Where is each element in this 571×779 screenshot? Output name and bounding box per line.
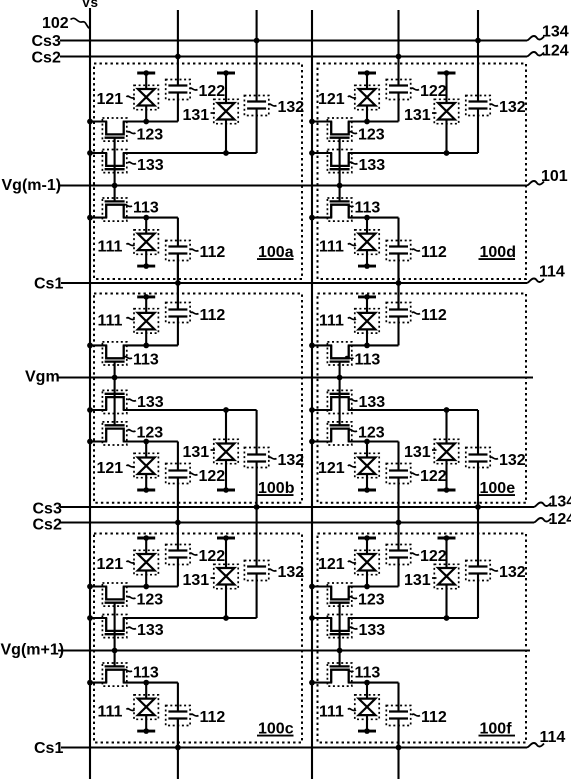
wire: Vs to 131/132 node (cell 100b) [90,409,107,411]
svg-text:Cs2: Cs2 [32,50,61,67]
wire: Vs to 111/112 node (cell 100f) [312,682,332,684]
capacitor 112 (cell 100b) [168,315,187,317]
wire: Vs to 111/112 node (cell 100c) [90,682,107,684]
cell box 100a [94,64,302,280]
capacitor 112 (cell 100f) [389,710,408,712]
transistor 133 (cell 100f) [331,618,349,631]
wire: Vs to 111/112 node (cell 100a) [90,217,107,219]
bus Cs3 (middle) [60,506,534,508]
wire: Vs to 131/132 node (cell 100c) [90,617,107,619]
x=478 line across Cs3 between 100e and 100f (right) [477,462,479,567]
wire: Vs to storage node, row with 121/122 (cell 100f) [312,585,332,587]
capacitor 132 (cell 100e) [469,460,488,462]
diode 121 (cell 100b) [137,489,155,492]
svg-text:131: 131 [404,444,431,461]
lead capacitor 112 to Cs1 (cell 100f) [397,719,399,749]
junction dots on Vs and nodes (cell 100e) [309,439,315,445]
svg-text:132: 132 [278,452,305,469]
capacitor 132 (cell 100b) [247,460,266,462]
capacitor 132 (cell 100d) [469,100,488,102]
label 132 (cell 100d) [490,104,498,106]
diode 121 (cell 100d) [358,72,376,75]
wire: Vs to 131/132 node (cell 100a) [90,152,107,154]
capacitor 122 (cell 100c) [168,549,187,551]
label 112 (cell 100b) [191,312,199,314]
bus Cs3 (top) [60,39,527,41]
lead diode 111 to node (cell 100e) [366,329,368,345]
transistor 113 (cell 100c) [106,670,124,683]
transistor 133 (cell 100d) [331,153,349,166]
lead diode 111 to node (cell 100f) [366,683,368,699]
label 132 (cell 100a) [269,104,277,106]
wire: Vs to 131/132 node (cell 100f) [312,617,332,619]
transistor 113 (cell 100e) [331,345,349,358]
svg-text:101: 101 [541,168,568,185]
cell box 100e [318,294,527,503]
bus Vg(m+1) [58,649,530,651]
capacitor 112 (cell 100e) [389,315,408,317]
x=178 line across Cs2 between 100b and 100c (left) [177,478,179,551]
lead capacitor 122 to node (cell 100f) [397,558,399,587]
transistor 123 (cell 100d) [331,122,349,135]
svg-text:121: 121 [97,460,124,477]
capacitor 112 (cell 100d) [389,245,408,247]
label 113 (cell 100a) [124,205,132,207]
lead diode 131 to node (cell 100a) [225,120,227,154]
label 133 (cell 100a) [128,162,136,164]
svg-text:111: 111 [98,704,123,721]
transistor 113 (cell 100b) [106,345,124,358]
svg-text:Cs2: Cs2 [33,517,62,534]
svg-text:111: 111 [98,239,123,256]
bus Vg(m-1) [58,184,527,186]
label 122 (cell 100e) [411,473,419,475]
svg-text:113: 113 [133,352,159,369]
label 123 (cell 100d) [349,132,357,134]
svg-text:132: 132 [499,564,526,581]
cell box 100c [94,534,302,743]
svg-text:111: 111 [98,313,123,330]
label 123 (cell 100b) [128,430,136,432]
diode 131 (cell 100b) [217,489,235,492]
capacitor 122 (cell 100a) [168,84,187,86]
svg-text:133: 133 [359,394,386,411]
label 123 (cell 100a) [128,132,136,134]
svg-text:112: 112 [421,244,447,261]
svg-text:112: 112 [421,307,447,324]
svg-text:112: 112 [200,307,226,324]
diode 131 (cell 100c) [217,537,235,540]
cell box 100f [318,534,527,743]
diode 111 (cell 100f) [358,730,376,733]
svg-text:133: 133 [137,394,164,411]
label 132 (cell 100e) [490,457,498,459]
lead diode 121 to node (cell 100a) [145,106,147,122]
svg-text:133: 133 [359,622,386,639]
svg-text:122: 122 [420,548,447,565]
svg-text:113: 113 [355,665,381,682]
wire: Vs to storage node, row with 121/122 (cell 100b) [90,440,107,442]
Cs2 feed line x=398 top segment (right) [397,10,399,86]
transistor 133 (cell 100b) [106,397,124,410]
lead capacitor 112 to node (cell 100e) [397,317,399,346]
svg-text:Vgm: Vgm [25,368,60,385]
junction dots on Vs and nodes (cell 100c) [87,584,93,590]
capacitor 122 (cell 100e) [389,476,408,478]
svg-text:111: 111 [319,313,344,330]
gate lead of 123/133 to Vg line (cell 100d) [339,138,341,186]
gate lead of 113 to Vg line (cell 100d) [339,186,341,202]
diode 111 (cell 100d) [358,265,376,268]
svg-text:113: 113 [355,200,381,217]
diode 121 (cell 100c) [137,537,155,540]
svg-text:132: 132 [278,99,305,116]
svg-text:124: 124 [549,511,571,528]
capacitor 122 (cell 100b) [168,476,187,478]
x=178 line below bottom Cs1 (left) [177,719,179,779]
svg-text:Vg(m-1): Vg(m-1) [2,177,62,194]
transistor 123 (cell 100a) [106,122,124,135]
Cs2 feed line x=178 top segment (left) [177,10,179,86]
label 123 (cell 100c) [128,597,136,599]
lead capacitor 112 to node (cell 100d) [397,218,399,247]
svg-text:123: 123 [137,592,164,609]
lead capacitor 122 to node (cell 100e) [397,442,399,471]
svg-text:133: 133 [137,622,164,639]
svg-text:123: 123 [137,425,164,442]
diode 111 (cell 100b) [137,295,155,298]
label 122 (cell 100f) [411,553,419,555]
lead diode 131 to node (cell 100e) [445,410,447,444]
bus Vgm [57,376,533,378]
svg-text:133: 133 [359,157,386,174]
lead capacitor 132 to node (cell 100c) [256,574,258,619]
bus Cs1 (upper) [61,282,527,284]
svg-text:131: 131 [404,107,431,124]
svg-text:121: 121 [97,91,124,108]
wire: Vs to storage node, row with 121/122 (cell 100c) [90,585,107,587]
diode 111 (cell 100e) [358,295,376,298]
transistor 123 (cell 100f) [331,587,349,600]
diode 111 (cell 100c) [137,730,155,733]
Vs supply line (right column) [311,10,313,779]
junction dots on Vs and nodes (cell 100b) [87,439,93,445]
gate lead of 113 to Vg line (cell 100c) [114,651,116,667]
label 112 (cell 100e) [412,312,420,314]
gate lead of 113 to Vg line (cell 100f) [339,651,341,667]
lead capacitor 122 to node (cell 100b) [177,442,179,471]
label 122 (cell 100a) [190,88,198,90]
label 112 (cell 100d) [412,249,420,251]
capacitor 132 (cell 100a) [247,100,266,102]
capacitor 112 (cell 100a) [168,245,187,247]
svg-text:111: 111 [319,704,344,721]
diode 131 (cell 100f) [438,537,456,540]
svg-text:131: 131 [183,107,210,124]
lead capacitor 112 to Cs1 (cell 100d) [397,254,399,284]
junction dots on Vs and nodes (cell 100f) [309,584,315,590]
svg-text:114: 114 [540,729,566,746]
label 123 (cell 100e) [349,430,357,432]
lead diode 121 to node (cell 100f) [366,571,368,587]
lead diode 121 to node (cell 100d) [366,106,368,122]
label 133 (cell 100f) [350,627,358,629]
lead diode 131 to node (cell 100c) [225,585,227,619]
lead capacitor 132 to node (cell 100b) [256,410,258,455]
lead diode 111 to node (cell 100d) [366,218,368,234]
lead capacitor 132 to node (cell 100f) [477,574,479,619]
wire: Vs to 111/112 node (cell 100d) [312,217,332,219]
label 113 (cell 100b) [124,357,132,359]
svg-text:Cs1: Cs1 [34,276,63,293]
label 133 (cell 100b) [128,399,136,401]
capacitor 132 (cell 100f) [469,565,488,567]
svg-text:132: 132 [278,564,305,581]
label 113 (cell 100f) [346,670,354,672]
wire: Vs to 111/112 node (cell 100b) [90,344,107,346]
label 122 (cell 100c) [190,553,198,555]
svg-text:113: 113 [355,352,381,369]
svg-text:111: 111 [319,239,344,256]
Cs3 feed line x=257 top segment (left) [256,10,258,102]
svg-text:122: 122 [199,83,226,100]
gate lead of 123/133 to Vg line (cell 100f) [339,603,341,651]
svg-text:131: 131 [183,572,210,589]
capacitor 112 (cell 100c) [168,710,187,712]
svg-text:123: 123 [358,127,385,144]
lead capacitor 112 to Cs1 (cell 100e) [397,280,399,310]
svg-text:Cs3: Cs3 [32,33,61,50]
Cs3 feed line x=478 top segment (right) [477,10,479,102]
svg-text:102: 102 [42,15,69,32]
capacitor 132 (cell 100c) [247,565,266,567]
junction dots on Vs and nodes (cell 100d) [309,119,315,125]
lead diode 121 to node (cell 100e) [366,442,368,458]
wire: Vs to storage node, row with 121/122 (cell 100e) [312,440,332,442]
svg-text:121: 121 [318,460,345,477]
diode 131 (cell 100a) [217,72,235,75]
diode 121 (cell 100e) [358,489,376,492]
gate lead of 123/133 to Vg line (cell 100a) [114,138,116,186]
lead capacitor 122 to node (cell 100c) [177,558,179,587]
label 113 (cell 100d) [346,205,354,207]
label 133 (cell 100c) [128,627,136,629]
label 132 (cell 100b) [269,457,277,459]
transistor 133 (cell 100e) [331,397,349,410]
lead capacitor 112 to node (cell 100f) [397,683,399,712]
lead diode 131 to node (cell 100b) [225,410,227,444]
diode 121 (cell 100a) [137,72,155,75]
svg-text:132: 132 [499,99,526,116]
svg-text:Vg(m+1): Vg(m+1) [1,642,65,659]
svg-text:121: 121 [97,556,124,573]
transistor 113 (cell 100a) [106,205,124,218]
gate lead of 113 to Vg line (cell 100e) [339,362,341,378]
transistor 133 (cell 100a) [106,153,124,166]
label 112 (cell 100c) [191,714,199,716]
lead capacitor 112 to Cs1 (cell 100a) [177,254,179,284]
svg-text:123: 123 [358,425,385,442]
wire: Vs to 111/112 node (cell 100e) [312,344,332,346]
svg-text:113: 113 [133,200,159,217]
svg-text:112: 112 [421,709,447,726]
svg-text:Cs3: Cs3 [33,500,62,517]
x=257 line across Cs3 between 100b and 100c (left) [256,462,258,567]
cell box 100d [318,64,527,280]
svg-text:112: 112 [200,709,226,726]
transistor 133 (cell 100c) [106,618,124,631]
lead capacitor 122 to node (cell 100a) [177,93,179,122]
label 132 (cell 100f) [490,569,498,571]
lead capacitor 112 to node (cell 100b) [177,317,179,346]
svg-text:122: 122 [199,548,226,565]
diode 121 (cell 100f) [358,537,376,540]
label 122 (cell 100d) [411,88,419,90]
svg-text:134: 134 [542,24,569,41]
lead capacitor 132 to node (cell 100d) [477,109,479,154]
transistor 123 (cell 100e) [331,429,349,442]
lead capacitor 112 to Cs1 (cell 100c) [177,719,179,749]
lead capacitor 112 to Cs1 (cell 100b) [177,280,179,310]
svg-text:122: 122 [199,468,226,485]
svg-text:132: 132 [499,452,526,469]
lead diode 131 to node (cell 100f) [445,585,447,619]
label 133 (cell 100e) [350,399,358,401]
lead diode 131 to node (cell 100d) [445,120,447,154]
svg-text:121: 121 [318,556,345,573]
transistor 123 (cell 100b) [106,429,124,442]
label 113 (cell 100c) [124,670,132,672]
gate lead of 123/133 to Vg line (cell 100c) [114,603,116,651]
transistor 123 (cell 100c) [106,587,124,600]
svg-text:131: 131 [404,572,431,589]
gate lead of 113 to Vg line (cell 100b) [114,362,116,378]
lead capacitor 132 to node (cell 100e) [477,410,479,455]
bus Cs1 (bottom) [61,746,527,748]
diode 131 (cell 100e) [438,489,456,492]
svg-text:Vs: Vs [82,0,99,10]
wire: Vs to 131/132 node (cell 100e) [312,409,332,411]
svg-text:114: 114 [539,264,565,281]
wire: Vs to 131/132 node (cell 100d) [312,152,332,154]
svg-text:134: 134 [549,494,571,511]
diode 131 (cell 100d) [438,72,456,75]
lead diode 121 to node (cell 100c) [145,571,147,587]
capacitor 122 (cell 100f) [389,549,408,551]
bus Cs2 (top) [60,55,527,57]
svg-text:122: 122 [420,83,447,100]
lead diode 111 to node (cell 100c) [145,683,147,699]
svg-text:124: 124 [542,43,569,60]
svg-text:123: 123 [137,127,164,144]
svg-text:133: 133 [137,157,164,174]
x=178 line across Cs1 between 100a and 100b (left) [177,254,179,310]
label 122 (cell 100b) [190,473,198,475]
label 112 (cell 100f) [412,714,420,716]
transistor 113 (cell 100d) [331,205,349,218]
gate lead of 123/133 to Vg line (cell 100e) [339,378,341,426]
capacitor 122 (cell 100d) [389,84,408,86]
svg-text:Cs1: Cs1 [34,740,63,757]
junction dots on Vs and nodes (cell 100a) [87,119,93,125]
transistor 113 (cell 100f) [331,670,349,683]
lead diode 111 to node (cell 100a) [145,218,147,234]
x=398 line below bottom Cs1 (right) [397,719,399,779]
svg-text:123: 123 [358,592,385,609]
bus Cs2 (middle) [60,521,534,523]
wire: Vs to storage node, row with 121/122 (cell 100d) [312,120,332,122]
label 112 (cell 100a) [191,249,199,251]
x=398 line across Cs2 between 100e and 100f (right) [397,478,399,551]
gate lead of 123/133 to Vg line (cell 100b) [114,378,116,426]
lead capacitor 122 to node (cell 100d) [397,93,399,122]
lead capacitor 112 to node (cell 100c) [177,683,179,712]
diode 111 (cell 100a) [137,265,155,268]
svg-text:131: 131 [183,444,210,461]
gate lead of 113 to Vg line (cell 100a) [114,186,116,202]
lead diode 121 to node (cell 100b) [145,442,147,458]
label 132 (cell 100c) [269,569,277,571]
label 113 (cell 100e) [346,357,354,359]
cell box 100b [94,294,302,503]
label 123 (cell 100f) [349,597,357,599]
label 133 (cell 100d) [350,162,358,164]
wire: Vs to storage node, row with 121/122 (cell 100a) [90,120,107,122]
x=398 line across Cs1 between 100d and 100e (right) [397,254,399,310]
svg-text:122: 122 [420,468,447,485]
svg-text:121: 121 [318,91,345,108]
Vs supply line (left column) [89,8,91,779]
lead diode 111 to node (cell 100b) [145,329,147,345]
lead capacitor 112 to node (cell 100a) [177,218,179,247]
svg-text:113: 113 [133,665,159,682]
lead capacitor 132 to node (cell 100a) [256,109,258,154]
svg-text:112: 112 [200,244,226,261]
